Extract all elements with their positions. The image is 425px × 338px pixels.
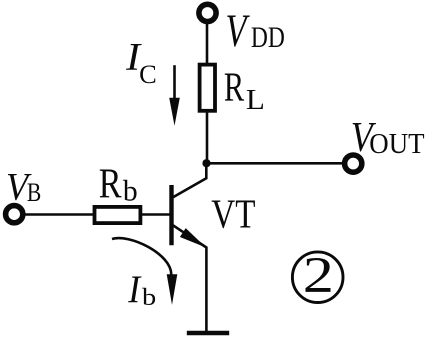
svg-text:VT: VT bbox=[211, 192, 255, 237]
svg-text:OUT: OUT bbox=[369, 128, 424, 159]
current IC arrow bbox=[173, 65, 176, 103]
wire VDD to RL bbox=[206, 24, 209, 65]
svg-text:I: I bbox=[127, 269, 141, 312]
transistor VT base bar bbox=[169, 185, 173, 245]
terminal VB bbox=[6, 206, 23, 223]
wire RL to node bbox=[206, 111, 209, 165]
svg-text:2: 2 bbox=[303, 249, 334, 304]
current Ib curved arrow bbox=[112, 238, 171, 274]
wire node to VOUT bbox=[207, 162, 343, 165]
resistor Rb bbox=[95, 207, 141, 223]
svg-text:b: b bbox=[142, 283, 156, 311]
emitter arrowhead bbox=[180, 228, 206, 247]
terminal VOUT bbox=[345, 155, 362, 172]
ground bbox=[187, 331, 229, 336]
wire Rb to base bbox=[141, 213, 170, 216]
svg-text:R: R bbox=[99, 161, 122, 207]
svg-text:b: b bbox=[123, 175, 138, 207]
transistor VT collector bbox=[173, 162, 206, 197]
svg-text:B: B bbox=[27, 179, 41, 207]
Ib arrowhead bbox=[167, 274, 178, 305]
transistor VT emitter bbox=[173, 225, 206, 331]
svg-text:V: V bbox=[226, 4, 250, 56]
svg-text:C: C bbox=[139, 59, 157, 89]
circled 2 bbox=[292, 252, 343, 303]
resistor RL bbox=[200, 65, 215, 111]
svg-text:R: R bbox=[224, 64, 245, 110]
svg-text:DD: DD bbox=[251, 20, 285, 53]
wire VB to Rb bbox=[25, 213, 95, 216]
node (junction dot) bbox=[202, 159, 210, 167]
terminal VDD bbox=[199, 4, 216, 21]
svg-text:L: L bbox=[246, 84, 265, 116]
